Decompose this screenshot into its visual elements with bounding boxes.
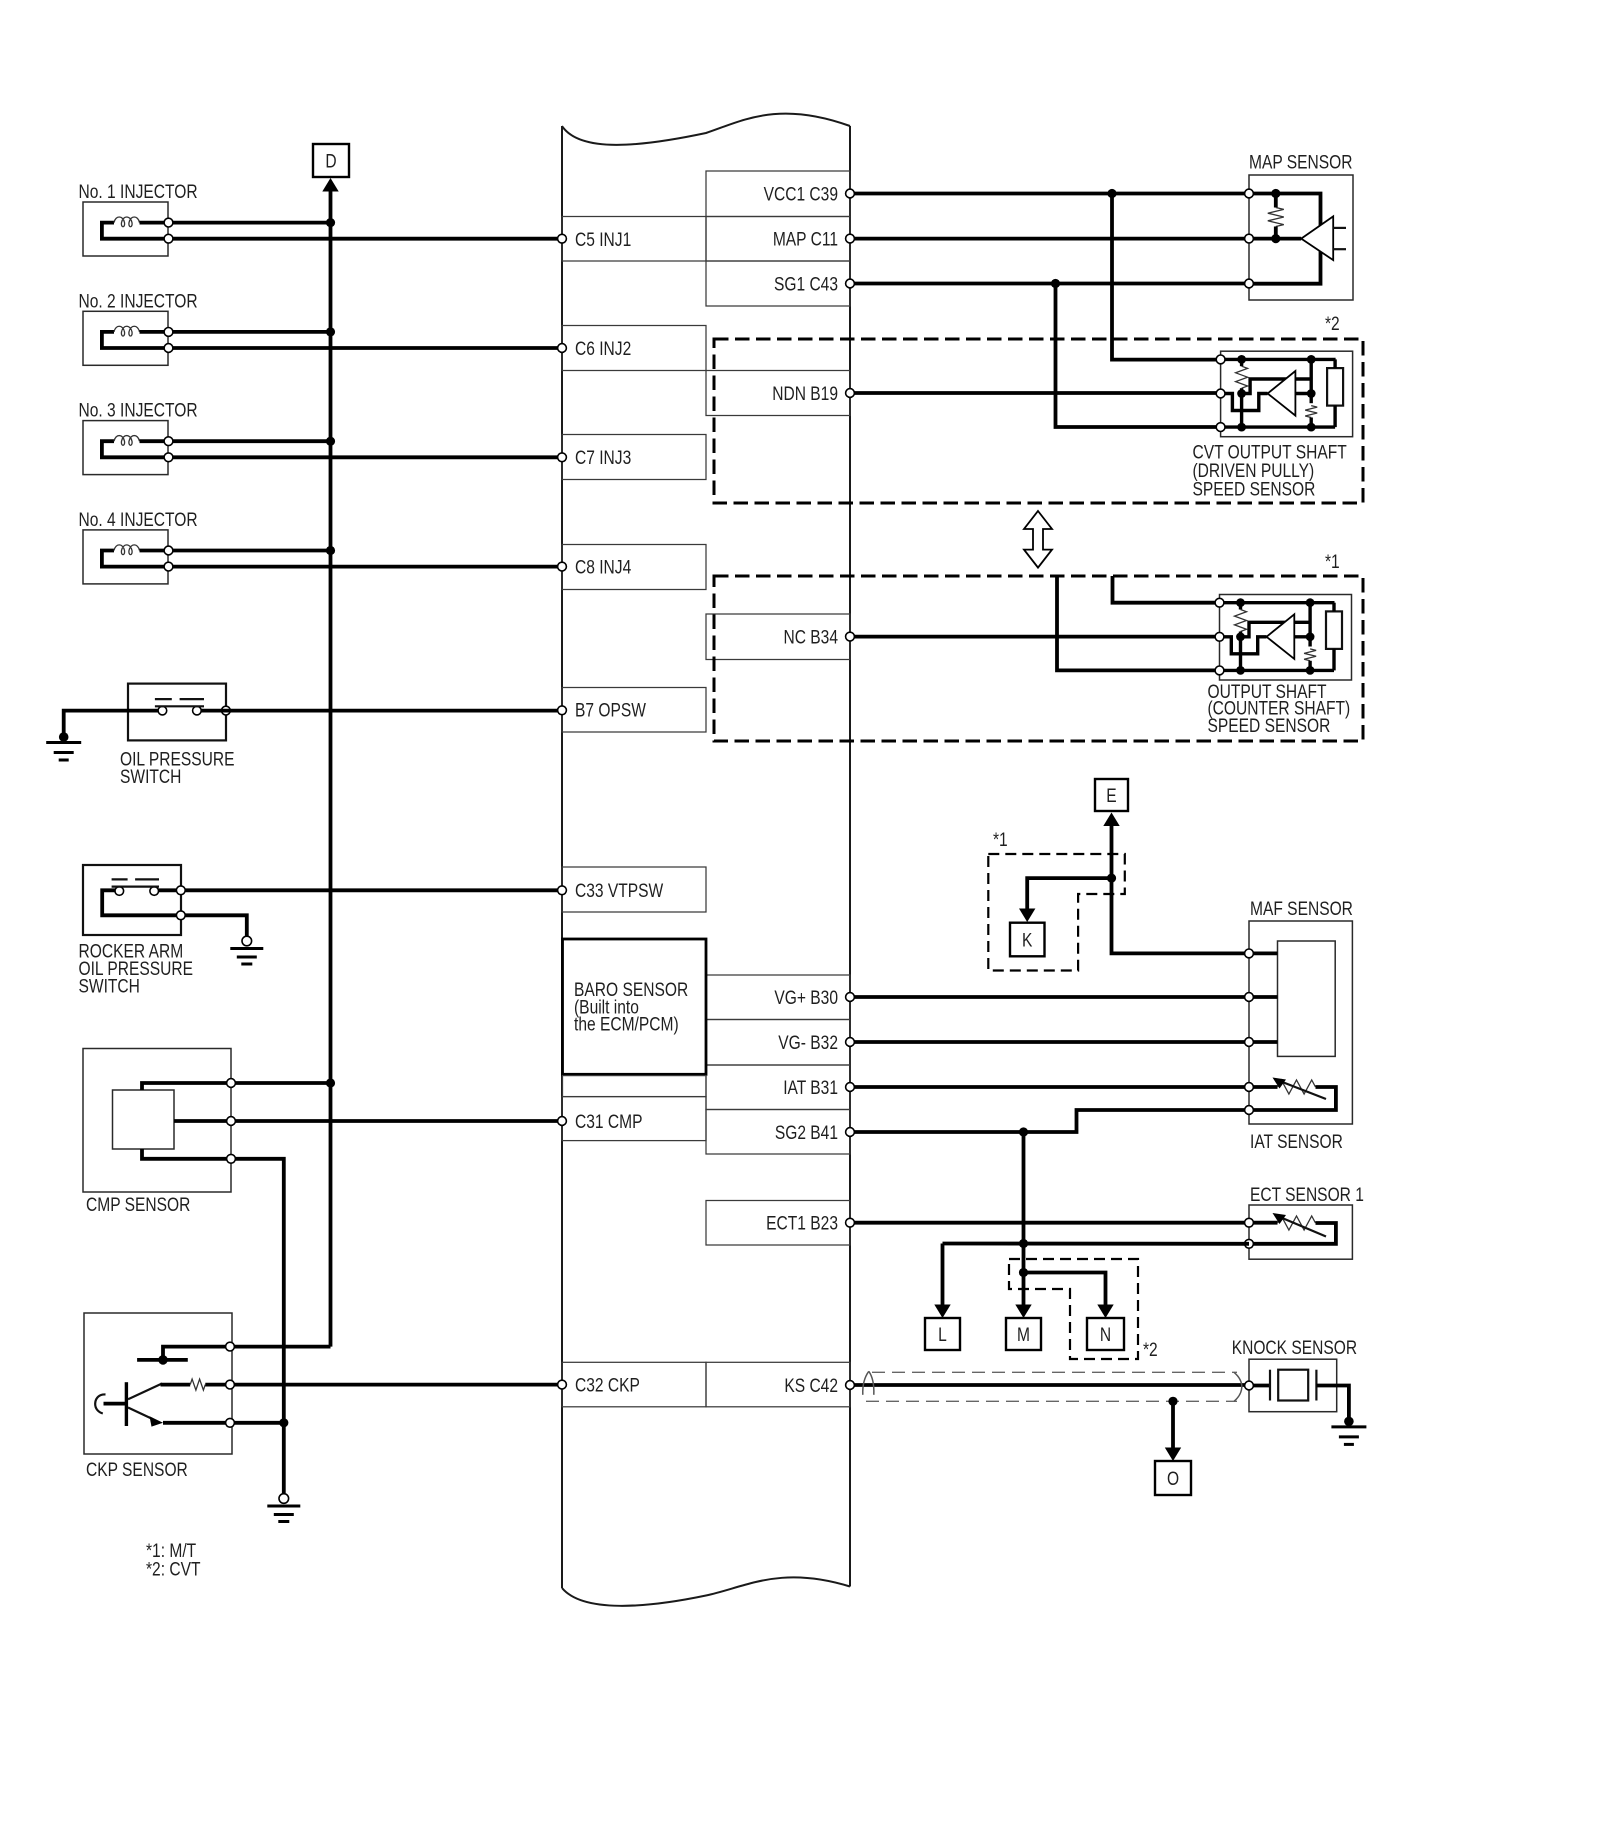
svg-text:No. 2 INJECTOR: No. 2 INJECTOR (79, 290, 198, 312)
ECM/PCM band right edge (849, 126, 851, 1587)
wire No. 3 INJECTOR to ECM pin (173, 455, 562, 459)
output shaft speed sensor resistor 1 (1239, 603, 1242, 610)
connector box D (313, 144, 349, 177)
wire CKP ground lead (234, 1421, 283, 1425)
svg-text:D: D (325, 150, 336, 172)
svg-text:NC B34: NC B34 (783, 626, 838, 648)
ECT SENSOR 1 box (1249, 1205, 1352, 1259)
svg-text:C33 VTPSW: C33 VTPSW (575, 880, 664, 902)
wire VCC1 C39 to MAP sensor (850, 192, 1249, 196)
connector box N (1087, 1318, 1124, 1350)
ground at knock sensor (1344, 1417, 1354, 1427)
wire CMP to bus (235, 1081, 330, 1085)
wire ECT1 B23 to ECT sensor (850, 1221, 1278, 1225)
output shaft speed sensor resistor 2 and output rail (1308, 603, 1311, 647)
wire SG1 branch to CVT sensor (1056, 284, 1221, 428)
pin circle C6 INJ2 (558, 344, 567, 353)
svg-text:VG- B32: VG- B32 (778, 1031, 838, 1053)
wire ECT return to L/M/N branch (943, 1242, 1250, 1246)
connector box O (1155, 1461, 1191, 1495)
ECM/PCM band left edge (561, 126, 563, 1588)
injector No. 3 INJECTOR terminal pins (164, 437, 173, 446)
svg-text:C32 CKP: C32 CKP (575, 1374, 640, 1396)
wire SG1 branch to output shaft sensor (1057, 576, 1220, 670)
junction dot bus/CMP (326, 1078, 335, 1087)
junction dot E/K branch (1107, 874, 1116, 883)
svg-text:KS C42: KS C42 (784, 1374, 838, 1396)
svg-text:MAF SENSOR: MAF SENSOR (1250, 898, 1353, 920)
wire CKP to C32 CKP (234, 1383, 562, 1387)
pin circle SG2 B41 (846, 1128, 855, 1137)
pin circle MAP C11 (846, 234, 855, 243)
svg-text:VG+ B30: VG+ B30 (774, 986, 838, 1008)
svg-text:SPEED SENSOR: SPEED SENSOR (1193, 478, 1316, 500)
pin circle C32 CKP (558, 1380, 567, 1389)
CKP sensor lower lead (163, 1421, 227, 1425)
CKP SENSOR box (84, 1313, 232, 1454)
svg-text:No. 1 INJECTOR: No. 1 INJECTOR (79, 181, 198, 203)
ground below CKP sensor (279, 1494, 289, 1504)
pin box ECT1 B23 (706, 1201, 850, 1246)
wire SG1 C43 to MAP sensor (850, 282, 1249, 286)
junction dot bus/No. 4 INJECTOR (326, 546, 335, 555)
wire branch to K (1027, 878, 1111, 908)
wire IAT B31 to IAT thermistor (850, 1085, 1278, 1089)
pin box VCC1 C39 (706, 171, 850, 217)
MAP SENSOR box (1249, 175, 1353, 300)
pin box C32 CKP (562, 1362, 706, 1407)
output shaft speed sensor box (1220, 595, 1352, 681)
svg-text:VCC1 C39: VCC1 C39 (764, 183, 838, 205)
CMP SENSOR box (83, 1049, 231, 1193)
MAF sensor element (1278, 941, 1336, 1056)
svg-text:*2: *2 (1143, 1339, 1158, 1361)
CKP sensor resistor (161, 1383, 191, 1387)
main power bus wire (vertical) (329, 191, 333, 1347)
knock sensor terminal (1245, 1381, 1254, 1390)
CKP sensor terminals (226, 1342, 235, 1351)
CVT output shaft speed sensor pickup element (1327, 368, 1343, 406)
CVT output shaft speed sensor junction dots (1237, 355, 1246, 364)
oil pressure switch terminal (222, 706, 231, 715)
ECM/PCM band bottom torn edge (562, 1577, 850, 1605)
wire branch to L (941, 1244, 945, 1305)
pin circle NDN B19 (846, 389, 855, 398)
dashed option box *2 CVT speed sensor (714, 339, 1363, 503)
wire No. 2 INJECTOR to ECM pin (173, 346, 562, 350)
dashed option box *1 output shaft speed sensor (714, 576, 1363, 741)
CVT output shaft speed sensor top rail (1221, 358, 1336, 361)
svg-text:SG1 C43: SG1 C43 (774, 273, 838, 295)
svg-text:CKP SENSOR: CKP SENSOR (86, 1459, 188, 1481)
junction dot bus/No. 3 INJECTOR (326, 437, 335, 446)
injector No. 3 INJECTOR coil winding (102, 441, 164, 457)
wire shield to O (1171, 1401, 1175, 1447)
svg-text:SPEED SENSOR: SPEED SENSOR (1208, 715, 1331, 737)
svg-text:MAP SENSOR: MAP SENSOR (1249, 151, 1353, 173)
injector No. 1 INJECTOR box (83, 202, 168, 256)
svg-text:B7 OPSW: B7 OPSW (575, 699, 646, 721)
svg-text:*1: *1 (993, 829, 1008, 851)
pin circle VCC1 C39 (846, 189, 855, 198)
svg-text:*2: *2 (1325, 313, 1340, 335)
KNOCK SENSOR box (1249, 1359, 1337, 1412)
wire No. 4 INJECTOR to bus (173, 549, 331, 553)
CKP sensor magnet hook (95, 1394, 105, 1413)
MAP sensor internal resistor (1271, 189, 1280, 198)
pin box C31 CMP (562, 1097, 706, 1141)
output shaft speed sensor feedback lead (1241, 622, 1311, 637)
injector No. 3 INJECTOR box (83, 421, 168, 475)
wire VG+ B30 to MAF (850, 995, 1278, 999)
pin box MAP C11 (706, 217, 850, 262)
pin circle C31 CMP (558, 1117, 567, 1126)
pin circle VG+ B30 (846, 993, 855, 1002)
OIL PRESSURE SWITCH box (128, 684, 226, 741)
wire MAF power to E (1112, 826, 1250, 953)
svg-text:the ECM/PCM): the ECM/PCM) (574, 1013, 679, 1035)
output shaft speed sensor input lead (1220, 637, 1267, 654)
pin box C33 VTPSW (562, 867, 706, 912)
CMP sensor terminals (227, 1079, 236, 1088)
MAF SENSOR box (1249, 921, 1352, 1124)
injector No. 1 INJECTOR terminal pins (164, 218, 173, 227)
wire No. 1 INJECTOR to ECM pin (173, 237, 562, 241)
wire branch to N (1024, 1273, 1106, 1305)
pin circle VG- B32 (846, 1038, 855, 1047)
junction dot ECT return (1019, 1239, 1028, 1248)
IAT thermistor (1278, 1080, 1316, 1094)
pin circle ECT1 B23 (846, 1218, 855, 1227)
wire knock sensor to ground (1337, 1386, 1349, 1418)
rocker arm switch contacts (115, 887, 124, 896)
svg-text:KNOCK SENSOR: KNOCK SENSOR (1232, 1337, 1357, 1359)
pin box C6 INJ2 (562, 326, 706, 371)
bus-to-CKP wire (230, 1345, 331, 1349)
wire MAP C11 to MAP sensor (850, 237, 1249, 241)
ECT sensor terminals (1245, 1218, 1254, 1227)
output shaft speed sensor amplifier (1267, 614, 1295, 659)
CVT output shaft speed sensor terminals (1216, 355, 1225, 364)
ROCKER ARM OIL PRESSURE SWITCH box (83, 865, 181, 935)
svg-text:IAT SENSOR: IAT SENSOR (1250, 1131, 1343, 1153)
pin box SG2 B41 (706, 1110, 850, 1155)
wire CMP ground lead (vertical) (235, 1159, 283, 1494)
svg-text:L: L (938, 1323, 947, 1345)
svg-text:ECT1 B23: ECT1 B23 (766, 1212, 838, 1234)
svg-text:IAT B31: IAT B31 (783, 1076, 838, 1098)
injector No. 2 INJECTOR box (83, 311, 168, 365)
pin box VG- B32 (706, 1020, 850, 1066)
svg-text:C8 INJ4: C8 INJ4 (575, 556, 632, 578)
CKP sensor tap bar (163, 1347, 230, 1356)
MAP sensor amplifier (1301, 216, 1333, 260)
knock sensor piezo element (1249, 1384, 1270, 1388)
junction dot SG2 branch (1019, 1127, 1028, 1136)
connector box L (925, 1318, 960, 1350)
output shaft speed sensor junction dots (1236, 598, 1245, 607)
pin box NDN B19 (706, 371, 850, 416)
pin circle C33 VTPSW (558, 886, 567, 895)
CVT output shaft speed sensor feedback lead (1242, 379, 1312, 394)
pin box C5 INJ1 (562, 217, 706, 262)
arrow into N (1097, 1305, 1113, 1319)
injector No. 4 INJECTOR terminal pins (164, 546, 173, 555)
injector No. 2 INJECTOR coil winding (102, 332, 164, 348)
svg-text:E: E (1106, 784, 1116, 806)
svg-text:*2: CVT: *2: CVT (146, 1558, 201, 1580)
svg-text:SG2 B41: SG2 B41 (775, 1121, 838, 1143)
CVT output shaft speed sensor bottom rail (1221, 425, 1336, 428)
CVT output shaft speed sensor amplifier (1268, 371, 1296, 416)
unlabeled pin box above C31 (563, 1076, 707, 1097)
svg-text:C6 INJ2: C6 INJ2 (575, 338, 631, 360)
output shaft speed sensor pickup element (1326, 611, 1342, 649)
wire KS C42 to knock sensor (850, 1383, 1249, 1387)
svg-text:N: N (1100, 1323, 1111, 1345)
connector box K (1010, 923, 1045, 957)
injector No. 4 INJECTOR box (83, 530, 168, 584)
wire No. 1 INJECTOR to bus (173, 221, 331, 225)
connector box M (1006, 1318, 1041, 1350)
ground at oil pressure switch (59, 732, 69, 742)
CVT output shaft speed sensor resistor 2 and output rail (1309, 359, 1312, 403)
wire No. 2 INJECTOR to bus (173, 330, 331, 334)
arrow into M (1015, 1305, 1031, 1319)
CVT output shaft speed sensor box (1221, 351, 1353, 437)
injector No. 2 INJECTOR terminal pins (164, 328, 173, 337)
wire No. 4 INJECTOR to ECM pin (173, 565, 562, 569)
svg-text:C5 INJ1: C5 INJ1 (575, 228, 631, 250)
MAF power stub (1249, 952, 1278, 956)
svg-text:No. 3 INJECTOR: No. 3 INJECTOR (79, 399, 198, 421)
svg-text:SWITCH: SWITCH (79, 975, 140, 997)
svg-text:*1: *1 (1325, 551, 1340, 573)
pin box B7 OPSW (562, 688, 706, 733)
junction dot CKP/CMP ground leads (279, 1418, 288, 1427)
pin circle SG1 C43 (846, 279, 855, 288)
junction dot bus/No. 2 INJECTOR (326, 327, 335, 336)
ground at rocker arm switch (242, 936, 252, 946)
junction dot VCC1 branch (1107, 189, 1116, 198)
wire VCC1 branch to output shaft sensor (1113, 576, 1220, 603)
connector box E (1095, 779, 1128, 811)
wire NC B34 to output shaft sensor (850, 635, 1220, 639)
CMP sensor element (113, 1090, 175, 1149)
MAF sensor terminals (1245, 949, 1254, 958)
CKP sensor pickup pole (125, 1382, 128, 1426)
pin circle C7 INJ3 (558, 453, 567, 462)
arrow into K (1019, 909, 1035, 923)
svg-text:NDN B19: NDN B19 (772, 382, 838, 404)
wire CMP to C31 CMP (235, 1119, 562, 1123)
pin circle C5 INJ1 (558, 234, 567, 243)
CVT output shaft speed sensor resistor 1 (1240, 359, 1243, 366)
junction dot shield to O (1168, 1397, 1177, 1406)
CKP sensor coil diagonals (128, 1384, 162, 1400)
wire VG- B32 to MAF (850, 1040, 1278, 1044)
pin circle NC B34 (846, 632, 855, 641)
ECT thermistor (1278, 1216, 1316, 1230)
injector No. 4 INJECTOR coil winding (102, 551, 164, 567)
junction dot SG1 branch (1051, 279, 1060, 288)
pin box IAT B31 (706, 1065, 850, 1110)
svg-text:ECT SENSOR 1: ECT SENSOR 1 (1250, 1184, 1364, 1206)
pin box C8 INJ4 (562, 545, 706, 590)
svg-text:CMP SENSOR: CMP SENSOR (86, 1194, 190, 1216)
wire rocker arm switch to ground (185, 915, 247, 936)
oil pressure switch contacts (158, 706, 167, 715)
svg-text:C31 CMP: C31 CMP (575, 1110, 642, 1132)
MAP sensor terminals (1245, 189, 1254, 198)
rocker arm switch terminals (176, 886, 185, 895)
output shaft speed sensor terminals (1215, 598, 1224, 607)
CMP sensor internal wires (142, 1083, 231, 1090)
arrow into E (1103, 813, 1119, 827)
BARO SENSOR block (inside ECM) (563, 939, 707, 1074)
svg-text:C7 INJ3: C7 INJ3 (575, 446, 631, 468)
pin box NC B34 (706, 614, 850, 660)
MAP sensor signal lead (1249, 237, 1301, 241)
svg-text:M: M (1017, 1323, 1030, 1345)
dashed option outline *2 around N (1009, 1259, 1138, 1359)
wire NDN B19 to CVT sensor (850, 391, 1221, 395)
injector No. 1 INJECTOR coil winding (102, 223, 164, 239)
wire VCC1 branch to CVT sensor (1112, 194, 1221, 360)
pin box SG1 C43 (706, 261, 850, 306)
pin circle B7 OPSW (558, 706, 567, 715)
output shaft speed sensor bottom rail (1220, 669, 1335, 672)
either-or arrow between option boxes (1024, 511, 1052, 568)
pin circle C8 INJ4 (558, 562, 567, 571)
pin box C7 INJ3 (562, 435, 706, 480)
wire rocker arm switch to C33 VTPSW (185, 888, 562, 892)
junction dot bus/No. 1 INJECTOR (326, 218, 335, 227)
MAP sensor internal supply loop (1249, 194, 1321, 284)
svg-text:MAP C11: MAP C11 (773, 228, 838, 250)
junction dot M/N split (1019, 1268, 1028, 1277)
arrow into O (1165, 1448, 1181, 1462)
shielded cable around KS wire (872, 1371, 1237, 1373)
pin circle KS C42 (846, 1381, 855, 1390)
svg-text:O: O (1167, 1467, 1179, 1489)
wire No. 3 INJECTOR to bus (173, 439, 331, 443)
ECM/PCM band top torn edge (562, 114, 850, 145)
svg-text:SWITCH: SWITCH (120, 766, 181, 788)
wire SG2 B41 to MAF (850, 1110, 1245, 1132)
arrow into L (934, 1305, 950, 1319)
dashed option outline *1 around K (988, 854, 1125, 971)
svg-text:K: K (1022, 929, 1033, 951)
pin box KS C42 (706, 1362, 850, 1407)
rocker arm switch internal wire (102, 890, 176, 915)
svg-text:No. 4 INJECTOR: No. 4 INJECTOR (79, 508, 198, 530)
wire oil pressure switch left lead to ground (64, 711, 158, 733)
CVT output shaft speed sensor input lead (1221, 394, 1268, 411)
wire oil pressure switch to B7 OPSW (201, 709, 562, 713)
pin box VG+ B30 (706, 975, 850, 1020)
pin circle IAT B31 (846, 1083, 855, 1092)
arrow into D (322, 178, 338, 192)
wire SG2 branch down to M (1022, 1132, 1026, 1244)
output shaft speed sensor top rail (1220, 601, 1335, 604)
